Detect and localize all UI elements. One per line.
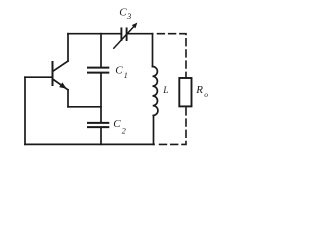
dashed wire bottom right — [157, 108, 187, 144]
dashed wire top right — [158, 34, 187, 77]
svg-text:3: 3 — [126, 12, 131, 21]
resistor Ro box — [179, 78, 191, 106]
svg-text:R: R — [195, 84, 203, 96]
svg-text:1: 1 — [124, 71, 128, 80]
capacitor C3 right plate — [126, 28, 128, 40]
wire collector vertical — [67, 34, 69, 61]
capacitor C3 left plate — [120, 28, 122, 40]
wire C2 bottom vertical — [100, 128, 102, 144]
wire top horizontal left of C3 — [68, 33, 121, 35]
capacitor C1 top plate — [88, 67, 108, 69]
transistor Q1 base bar — [52, 62, 54, 85]
svg-text:C: C — [113, 118, 121, 130]
wire L bottom vertical — [153, 116, 155, 145]
wire emitter horizontal to node — [68, 106, 101, 108]
wire bottom horizontal — [25, 143, 154, 145]
svg-text:L: L — [162, 86, 168, 96]
wire collector diagonal — [53, 61, 68, 71]
svg-text:C: C — [119, 7, 127, 19]
svg-text:2: 2 — [122, 127, 126, 136]
svg-text:o: o — [204, 90, 208, 99]
capacitor C2 top plate — [88, 122, 108, 124]
capacitor C3 arrow line — [114, 25, 135, 48]
svg-text:C: C — [115, 65, 123, 77]
wire L top vertical — [152, 34, 154, 67]
capacitor C2 bottom plate — [88, 126, 108, 128]
wire top horizontal right of C3 — [127, 33, 152, 35]
wire left vertical — [24, 77, 26, 144]
wire base horizontal — [25, 76, 53, 78]
inductor L coil — [153, 67, 158, 116]
transistor Q1 emitter diagonal — [53, 80, 68, 90]
wire emitter vertical — [67, 90, 69, 107]
capacitor C1 bottom plate — [88, 72, 108, 74]
wire C1 top vertical — [100, 34, 102, 67]
transistor Q1 emitter arrowhead — [60, 83, 66, 88]
wire C1-C2 middle vertical — [100, 74, 102, 122]
capacitor C3 arrowhead — [132, 23, 136, 28]
